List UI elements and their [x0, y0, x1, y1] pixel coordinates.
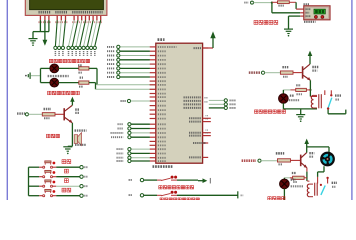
wire rail to D1 — [283, 89, 290, 91]
wire GND pin to ground — [300, 15, 304, 17]
wire emitter to ground — [68, 145, 73, 147]
relay RL2 contact 2 — [326, 177, 328, 179]
red label switch B (red Chinese text) — [160, 198, 163, 201]
relay RL1 coil — [311, 95, 313, 99]
wire SW-B left — [144, 194, 157, 196]
relay RL1 lever — [328, 98, 332, 108]
switch SW-A — [157, 179, 162, 181]
resistor R12 on rail — [296, 84, 301, 86]
MCU right P3 wires to terminals — [209, 99, 224, 101]
wire coil feed — [310, 96, 317, 98]
sheet border left — [6, 0, 8, 200]
U2 pin labels VDD DQ GND — [306, 8, 311, 10]
terminal BUZZ net label — [17, 112, 25, 114]
MCU inner labels right: P3 block — [184, 96, 202, 98]
terminal DQ net label — [244, 2, 248, 4]
wire Q1 emitter down — [306, 168, 308, 172]
power +5V (Q2 collector) — [70, 97, 74, 102]
red label: temperature sensor (red Chinese text) — [254, 21, 258, 25]
RL1 labels — [335, 94, 341, 96]
RL2 labels — [332, 182, 337, 184]
wire Q2 emitter down — [71, 123, 73, 147]
pin number marks right — [205, 97, 209, 99]
Q2 labels — [75, 108, 79, 110]
MCU inner pin labels left column — [158, 46, 166, 48]
terminal SW-A — [140, 178, 143, 181]
MCU inner label right: PSEN — [193, 142, 206, 144]
wire battery to LED branch — [31, 75, 41, 77]
ground (LCD VSS/VEE) — [29, 38, 38, 40]
terminal K2 — [80, 175, 83, 178]
fan M1 — [320, 152, 335, 167]
red label button 2 (red Chinese text) — [65, 169, 69, 173]
wire D1 to bottom rail — [282, 103, 284, 109]
LCD pin name labels VSS VDD VEE RS RW E D0-D7 — [39, 11, 52, 14]
red label: heater relay (red Chinese text) — [255, 110, 258, 113]
button bus wire — [28, 167, 30, 196]
pin number marks above right pair stubs — [206, 115, 209, 117]
LED D4 (normal) — [50, 78, 59, 87]
LCD pin numbers — [39, 21, 51, 23]
resistor R2 — [80, 76, 83, 78]
wire SW-A right to terminal arrow — [177, 179, 198, 181]
button K4 row — [29, 195, 40, 197]
terminal SW-B — [140, 194, 143, 197]
switch SW-A net label — [129, 179, 133, 181]
wire R11 to Q2 base — [55, 113, 64, 115]
MCU P0/P2 terminals group A — [131, 123, 150, 125]
terminal DQ — [251, 1, 254, 4]
wire Q4 emitter down — [309, 80, 311, 96]
power terminal (LCD VDD) — [43, 40, 48, 46]
resistor R9 — [292, 172, 296, 174]
relay RL1 contacts — [324, 90, 326, 95]
MCU right pin stubs — [203, 47, 209, 49]
MCU P1 terminals and wires — [167, 46, 177, 48]
relay RL2 lever — [321, 186, 325, 195]
wire SW-B right — [177, 194, 238, 196]
wire terminal to R11 — [29, 113, 43, 115]
MCU inner labels right: XTAL/EA — [189, 117, 201, 119]
resistor R10 — [276, 152, 284, 155]
button K2 row — [29, 176, 40, 178]
terminal BUZZ — [25, 113, 28, 116]
relay RL2 coil — [307, 184, 309, 188]
wires LCD D0-D7 to terminals — [69, 20, 75, 46]
relay RL1 core — [318, 94, 320, 108]
wire to LED D4 — [41, 82, 51, 84]
MCU U1 designator — [158, 38, 165, 41]
DS18B20 U2 body — [304, 6, 330, 20]
wire R8 to Q4 base — [293, 72, 302, 74]
LED D3 model text — [48, 75, 69, 77]
power +5V (MCU VCC) — [203, 47, 213, 49]
wire LED D3 to R1 — [58, 67, 78, 69]
red label: LED1 annotation (red Chinese text) — [49, 59, 52, 62]
power +5V (Q4 collector) — [308, 51, 313, 56]
junction emitter/R12 — [309, 89, 311, 91]
switch SW-B — [157, 194, 162, 196]
bottom rail (heater) — [283, 108, 317, 110]
power +5V (Q1 collector) — [304, 139, 309, 144]
MCU U1 (AT89C52) body — [156, 43, 203, 163]
wire HEAT to R8 — [265, 72, 281, 74]
U2 part number text — [304, 21, 316, 23]
red label: fan (red Chinese text) — [268, 197, 271, 200]
buzzer LS1 (sounder) — [75, 129, 87, 131]
resistor R11 — [44, 108, 52, 110]
resistor R8 — [282, 66, 288, 68]
terminal RELAY — [258, 159, 261, 162]
red label: LED2 annotation (red Chinese text) — [48, 91, 52, 95]
wire junction to DQ pin — [271, 3, 273, 13]
terminal K3 — [80, 185, 83, 188]
switch SW-B net label — [129, 194, 133, 196]
wire branch vertical — [40, 68, 42, 82]
wire fan bottom to RL2 contact — [323, 166, 325, 172]
DS18B20 U2 designator — [304, 3, 310, 5]
MCU inner label right: bottom — [189, 156, 201, 158]
button K1 row — [29, 166, 40, 168]
wire R10 to Q1 base — [291, 159, 301, 161]
wire to LED D3 — [41, 67, 51, 69]
wire R1 to MCU (P1 net) — [89, 67, 97, 69]
wire SW-A left — [144, 179, 157, 181]
LED D2 — [280, 179, 290, 189]
resistor R7 pull-up — [272, 1, 278, 3]
U2 LCD screen — [314, 9, 325, 14]
red label button 1 (red Chinese text) — [62, 160, 66, 164]
terminal P3.x single — [127, 99, 130, 102]
terminal K4 — [80, 194, 83, 197]
LCD module LCD1 (LM016L) — [25, 0, 107, 15]
LED D1 — [279, 94, 289, 104]
red label button 3 (red Chinese text) — [65, 179, 69, 183]
wire DQ to junction — [254, 2, 272, 4]
button K3 row — [29, 185, 40, 187]
ground (heater) — [300, 109, 302, 115]
wire R9 to D2 — [284, 177, 289, 179]
LED D3 (alarm) — [50, 64, 59, 73]
terminals under LCD (RS RW E D0-D7) — [54, 46, 57, 49]
terminal HEAT — [261, 71, 264, 74]
resistor R1 — [78, 64, 82, 66]
junction node — [271, 1, 273, 3]
LCD pins 1-14 — [39, 16, 41, 21]
wires LCD RS/RW/E to terminals — [55, 20, 57, 46]
terminal K1 — [80, 166, 83, 169]
relay RL2 core — [314, 183, 316, 196]
MCU part number text — [153, 165, 173, 168]
Q4 labels — [312, 66, 318, 68]
ground (DS18B20) — [284, 28, 293, 30]
wire D2 down — [283, 189, 285, 200]
wire RELAY to R10 — [261, 160, 277, 162]
MCU inner labels right: VCC — [194, 47, 202, 49]
ground (buzzer) — [63, 146, 72, 148]
wire VSS to ground — [39, 20, 41, 31]
wire emitter to RL2 coil — [307, 180, 310, 182]
transistor Q2 (NPN) — [63, 108, 65, 120]
wire R2 to MCU — [89, 82, 96, 84]
Q1 labels — [309, 152, 314, 154]
red label switch A (red Chinese text) — [159, 186, 162, 189]
wire LED D4 to R2 — [58, 82, 78, 84]
terminal net labels (vertical) — [54, 51, 56, 56]
battery/power symbol B1 — [25, 75, 27, 77]
U2 buttons — [314, 15, 317, 18]
wire R7 to VDD pin — [295, 2, 297, 9]
sheet border right — [351, 0, 353, 200]
red label: buzzer (red Chinese text) — [47, 134, 51, 138]
red label button 4 (red Chinese text) — [62, 188, 66, 192]
wire VEE join — [48, 20, 50, 31]
terminal RELAY net label (red) — [242, 159, 256, 162]
wire +5V to fan — [307, 146, 329, 148]
MCU P2 terminals group B — [131, 148, 150, 150]
transistor Q1 (NPN) — [300, 155, 302, 167]
terminal tick SW-B — [237, 191, 239, 198]
terminal HEAT net label — [249, 71, 261, 74]
rail to R9 — [304, 177, 307, 179]
MCU left pin stubs — [150, 46, 156, 48]
transistor Q4 (NPN) — [302, 66, 304, 78]
wire RL1 common — [327, 110, 329, 114]
